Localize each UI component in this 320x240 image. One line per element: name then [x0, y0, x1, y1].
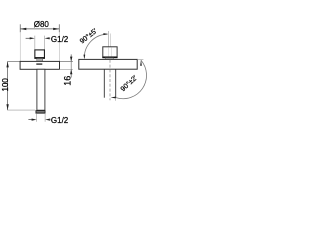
svg-text:100: 100 — [1, 78, 10, 92]
svg-text:G1/2: G1/2 — [51, 116, 69, 125]
svg-text:16: 16 — [63, 76, 73, 86]
svg-text:G1/2: G1/2 — [51, 35, 69, 44]
svg-text:Ø80: Ø80 — [34, 20, 50, 29]
